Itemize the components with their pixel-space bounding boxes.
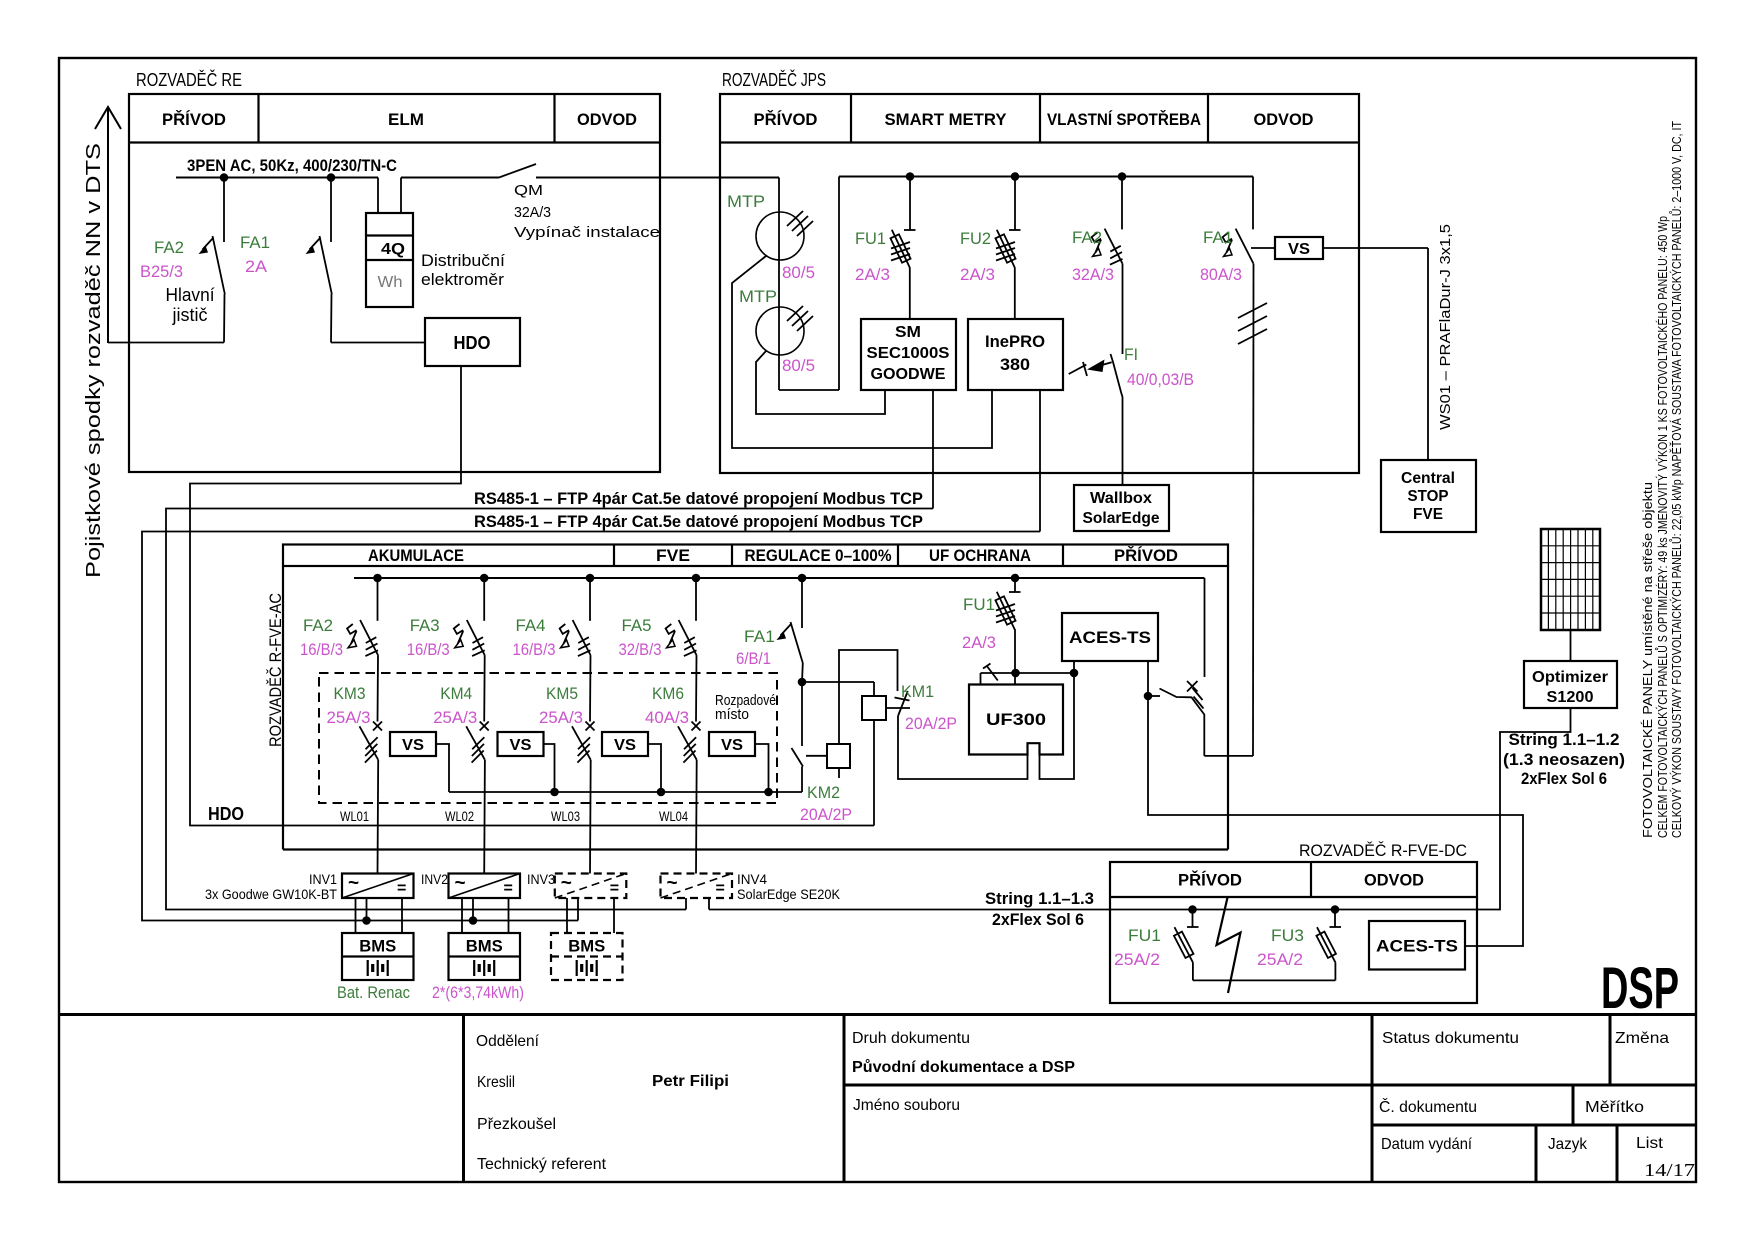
svg-text:FA2: FA2 <box>154 238 184 257</box>
svg-text:2*(6*3,74kWh): 2*(6*3,74kWh) <box>432 983 524 1002</box>
svg-text:FA1: FA1 <box>240 233 270 252</box>
battery system BMS1 <box>342 933 414 980</box>
box ACES-TS (AC) <box>1062 613 1158 661</box>
svg-text:String 1.1–1.3: String 1.1–1.3 <box>985 889 1094 908</box>
svg-text:6/B/1: 6/B/1 <box>736 649 771 668</box>
svg-text:FVE: FVE <box>656 546 690 565</box>
svg-text:S1200: S1200 <box>1547 689 1594 706</box>
wire SM RS485 drop <box>932 390 934 509</box>
coil KM2 <box>827 744 850 768</box>
CT transformer MTP 1 <box>756 212 804 260</box>
surge lightning symbol <box>1217 898 1241 994</box>
RCD FI <box>1111 354 1123 397</box>
svg-text:KM2: KM2 <box>807 783 840 802</box>
svg-text:PŘÍVOD: PŘÍVOD <box>162 110 226 129</box>
svg-text:ELM: ELM <box>388 110 424 129</box>
svg-text:40A/3: 40A/3 <box>645 708 689 727</box>
svg-text:InePRO: InePRO <box>985 332 1045 351</box>
wire VS1 drop <box>436 744 449 792</box>
svg-text:HDO: HDO <box>454 333 491 353</box>
svg-text:Měřítko: Měřítko <box>1585 1099 1644 1116</box>
node contact dot <box>1144 692 1153 701</box>
svg-text:Původní dokumentace a DSP: Původní dokumentace a DSP <box>852 1059 1075 1076</box>
svg-text:16/B/3: 16/B/3 <box>407 640 450 659</box>
svg-text:INV2: INV2 <box>421 871 448 887</box>
box VS2 <box>498 732 544 756</box>
svg-text:HDO: HDO <box>208 804 244 824</box>
wire RS485-1 line to SM <box>166 509 933 910</box>
svg-text:16/B/3: 16/B/3 <box>300 640 343 659</box>
svg-text:Jazyk: Jazyk <box>1548 1136 1588 1153</box>
svg-text:ROZVADĚČ JPS: ROZVADĚČ JPS <box>722 69 826 90</box>
svg-text:Optimizer: Optimizer <box>1532 669 1608 686</box>
fuse FU2 (JPS) <box>1014 177 1016 230</box>
svg-text:MTP: MTP <box>727 192 765 211</box>
svg-text:UF300: UF300 <box>986 710 1046 729</box>
breaker FA2 (R-FVE-AC) <box>377 578 379 621</box>
svg-text:KM4: KM4 <box>440 684 472 703</box>
svg-text:BMS: BMS <box>359 937 396 956</box>
svg-text:2A: 2A <box>245 257 268 276</box>
svg-text:=: = <box>610 880 619 897</box>
svg-text:SolarEdge: SolarEdge <box>1083 510 1160 527</box>
wire ACES link AC-DC <box>1148 696 1523 946</box>
svg-text:SEC1000S: SEC1000S <box>867 345 950 362</box>
wire InePRO RS485 drop <box>1039 390 1041 532</box>
svg-text:Technický referent: Technický referent <box>477 1156 607 1173</box>
svg-text:Bat. Renac: Bat. Renac <box>337 983 410 1002</box>
box InePRO 380 <box>968 319 1063 390</box>
svg-text:Jméno souboru: Jméno souboru <box>853 1097 960 1114</box>
wire INV3 to BMS3 <box>566 898 568 933</box>
box UF300 <box>969 685 1063 755</box>
arrow to DTS <box>107 108 109 343</box>
svg-text:Central: Central <box>1401 470 1455 487</box>
dashed box Rozpadove misto <box>319 673 777 803</box>
contactor KM3 <box>360 722 383 763</box>
switch QM blade <box>499 164 536 178</box>
wire bus RE <box>176 177 378 179</box>
breaker FA1 (RE) <box>330 178 332 243</box>
svg-text:VS: VS <box>614 737 636 754</box>
breaker FA4 (R-FVE-AC) <box>589 578 591 621</box>
svg-text:~: ~ <box>348 873 359 894</box>
svg-text:B25/3: B25/3 <box>140 262 183 281</box>
wire FA2 to DTS arrow <box>108 342 224 344</box>
svg-text:BMS: BMS <box>466 937 503 956</box>
svg-text:14/17: 14/17 <box>1644 1160 1695 1180</box>
svg-text:KM5: KM5 <box>546 684 578 703</box>
svg-text:(1.3 neosazen): (1.3 neosazen) <box>1503 750 1625 769</box>
svg-text:3PEN AC, 50Kz, 400/230/TN-C: 3PEN AC, 50Kz, 400/230/TN-C <box>187 156 397 175</box>
wire JPS bus through CTs <box>778 178 780 391</box>
contactor KM6 <box>678 722 701 763</box>
wire UF300 top link <box>981 672 1075 674</box>
svg-text:=: = <box>716 880 725 897</box>
svg-text:FA3: FA3 <box>410 616 440 635</box>
svg-text:25A/2: 25A/2 <box>1257 950 1303 969</box>
box HDO receiver <box>425 318 520 366</box>
wire VS4 drop <box>755 744 769 792</box>
wire FA1 to HDO <box>331 342 425 344</box>
CT transformer MTP 2 <box>756 307 804 355</box>
breaker FA1 (R-FVE-AC 6/B/1) <box>798 574 807 583</box>
svg-text:25A/2: 25A/2 <box>1114 950 1160 969</box>
svg-text:FU1: FU1 <box>855 229 886 248</box>
wire VS2 drop <box>544 744 555 792</box>
wire AC bus <box>354 577 1205 579</box>
switch privod (AC panel) <box>1204 578 1206 677</box>
svg-text:Wallbox: Wallbox <box>1090 490 1152 507</box>
wire INV2 to BMS2 <box>461 898 463 933</box>
wire MTP1 secondary to InePRO <box>732 256 992 448</box>
svg-text:FU3: FU3 <box>1271 926 1304 945</box>
svg-text:Status dokumentu: Status dokumentu <box>1382 1030 1519 1047</box>
node junction FU1 <box>906 172 915 181</box>
svg-text:2A/3: 2A/3 <box>855 265 890 284</box>
svg-text:PŘÍVOD: PŘÍVOD <box>1178 871 1242 890</box>
wire INV4 DC input <box>685 898 687 910</box>
box Central STOP FVE <box>1381 460 1476 532</box>
svg-text:místo: místo <box>715 706 749 723</box>
svg-text:Distribuční: Distribuční <box>421 251 505 270</box>
node junction FA2 (JPS) <box>1118 172 1127 181</box>
PV panel symbol <box>1541 529 1600 630</box>
wire optimizer string to R-FVE-DC <box>1477 708 1571 910</box>
inverter INV1 <box>342 874 414 899</box>
svg-text:2xFlex Sol 6: 2xFlex Sol 6 <box>1521 769 1607 788</box>
svg-text:FU1: FU1 <box>1128 926 1161 945</box>
node junction FA2 (AC) <box>373 574 382 583</box>
svg-text:3x Goodwe GW10K-BT: 3x Goodwe GW10K-BT <box>205 886 337 902</box>
svg-text:Kreslil: Kreslil <box>477 1074 515 1091</box>
fuse FU3 (DC) <box>1331 905 1340 914</box>
svg-text:Přezkoušel: Přezkoušel <box>477 1116 556 1133</box>
box Optimizer S1200 <box>1524 661 1617 708</box>
svg-text:20A/2P: 20A/2P <box>905 714 957 733</box>
svg-text:BMS: BMS <box>568 937 605 956</box>
svg-text:Oddělení: Oddělení <box>476 1033 540 1050</box>
inverter INV4 <box>661 874 733 899</box>
svg-text:~: ~ <box>561 873 572 894</box>
svg-text:32A/3: 32A/3 <box>514 204 551 221</box>
svg-text:WL01: WL01 <box>340 808 369 824</box>
svg-text:ODVOD: ODVOD <box>577 110 637 129</box>
svg-text:=: = <box>397 880 406 897</box>
svg-text:SolarEdge SE20K: SolarEdge SE20K <box>737 886 841 902</box>
svg-text:WL04: WL04 <box>659 808 688 824</box>
svg-text:Petr Filipi: Petr Filipi <box>652 1073 729 1090</box>
svg-text:FA1: FA1 <box>744 627 775 646</box>
node junction FA4 (AC) <box>586 574 595 583</box>
box Wallbox SolarEdge <box>1074 485 1169 531</box>
contact UF300 trip <box>987 666 998 681</box>
svg-text:VS: VS <box>510 737 532 754</box>
svg-text:VS: VS <box>402 737 424 754</box>
node junction below FA1 <box>801 663 804 682</box>
wire DC bus <box>1110 909 1477 911</box>
svg-text:elektroměr: elektroměr <box>421 270 504 289</box>
svg-text:FA4: FA4 <box>516 616 546 635</box>
wire DC fuse bottom link <box>1193 979 1336 981</box>
svg-text:QM: QM <box>514 182 543 199</box>
svg-text:RS485-1 – FTP 4pár Cat.5e dato: RS485-1 – FTP 4pár Cat.5e datové propoje… <box>474 489 923 508</box>
svg-text:32/B/3: 32/B/3 <box>619 640 662 659</box>
wire HDO control line <box>190 366 874 826</box>
svg-text:Pojistkové spodky rozvaděč NN: Pojistkové spodky rozvaděč NN v DTS <box>83 143 105 578</box>
svg-text:FI: FI <box>1124 345 1138 364</box>
svg-text:20A/2P: 20A/2P <box>800 805 852 824</box>
breaker FA2 (RE) <box>223 178 225 243</box>
node junction FA5 (AC) <box>692 574 701 583</box>
svg-text:FOTOVOLTAICKÉ PANELY umístěné: FOTOVOLTAICKÉ PANELY umístěné na střeše … <box>1640 482 1655 838</box>
node junction FA1 <box>327 173 336 182</box>
box VS4 <box>709 732 755 756</box>
svg-text:KM1: KM1 <box>901 682 934 701</box>
svg-text:PŘÍVOD: PŘÍVOD <box>1114 546 1178 565</box>
meter 4Q/Wh distribution meter <box>377 178 379 214</box>
svg-text:WL02: WL02 <box>445 808 474 824</box>
wire VS3 drop <box>648 744 661 792</box>
wire INV1 to BMS1 <box>355 898 357 933</box>
wire RS485-1 line to InePRO <box>142 532 1040 921</box>
svg-text:String 1.1–1.2: String 1.1–1.2 <box>1509 730 1620 749</box>
breaker FA3 (R-FVE-AC) <box>483 578 485 621</box>
svg-text:FU2: FU2 <box>960 229 991 248</box>
battery system BMS2 <box>449 933 521 980</box>
node junction FA3 (AC) <box>480 574 489 583</box>
fuse FU1 (JPS) <box>909 177 911 230</box>
svg-text:VLASTNÍ SPOTŘEBA: VLASTNÍ SPOTŘEBA <box>1047 110 1201 129</box>
svg-text:~: ~ <box>455 873 466 894</box>
svg-text:RS485-1 – FTP 4pár Cat.5e dato: RS485-1 – FTP 4pár Cat.5e datové propoje… <box>474 512 923 531</box>
breaker FA1 (JPS odvod) <box>1252 177 1254 230</box>
svg-text:GOODWE: GOODWE <box>871 366 946 383</box>
box ACES-TS (DC) <box>1369 921 1465 970</box>
svg-text:UF OCHRANA: UF OCHRANA <box>929 546 1031 565</box>
svg-text:25A/3: 25A/3 <box>433 708 477 727</box>
svg-text:Č. dokumentu: Č. dokumentu <box>1379 1097 1477 1116</box>
wire KM2 coil circuit <box>839 650 898 744</box>
svg-text:Druh dokumentu: Druh dokumentu <box>852 1030 970 1047</box>
svg-text:REGULACE 0–100%: REGULACE 0–100% <box>745 546 892 565</box>
svg-text:FA2: FA2 <box>1072 228 1102 247</box>
svg-text:ROZVADĚČ RE: ROZVADĚČ RE <box>136 69 242 90</box>
svg-text:32A/3: 32A/3 <box>1072 265 1114 284</box>
svg-text:Datum vydání: Datum vydání <box>1381 1136 1473 1153</box>
svg-text:FA1: FA1 <box>1203 228 1233 247</box>
wire VS to Central STOP <box>1323 247 1428 249</box>
coil KM1 <box>802 681 874 683</box>
svg-text:4Q: 4Q <box>381 241 405 258</box>
wire MTP2 secondary to SM <box>756 351 885 414</box>
svg-text:2A/3: 2A/3 <box>960 265 995 284</box>
svg-text:Hlavní: Hlavní <box>166 285 215 305</box>
svg-text:INV4: INV4 <box>737 871 767 887</box>
svg-text:Změna: Změna <box>1615 1030 1669 1047</box>
battery system BMS3 <box>551 933 623 980</box>
svg-text:KM6: KM6 <box>652 684 684 703</box>
wire FI to Wallbox <box>1122 397 1124 485</box>
svg-text:Vypínač instalace: Vypínač instalace <box>514 224 660 241</box>
box VS3 <box>602 732 648 756</box>
svg-text:16/B/3: 16/B/3 <box>513 640 556 659</box>
svg-text:25A/3: 25A/3 <box>539 708 583 727</box>
box SM SEC1000S GOODWE <box>861 319 956 390</box>
svg-text:ODVOD: ODVOD <box>1364 871 1424 890</box>
svg-text:WL03: WL03 <box>551 808 580 824</box>
svg-text:Wh: Wh <box>378 274 403 291</box>
svg-text:DSP: DSP <box>1601 956 1679 1021</box>
svg-text:VS: VS <box>721 737 743 754</box>
wire bus RE to JPS <box>536 177 779 179</box>
svg-text:SM: SM <box>895 324 921 341</box>
wire DC string to R-FVE-DC <box>709 909 1110 911</box>
svg-text:380: 380 <box>1000 355 1030 374</box>
svg-text:INV3: INV3 <box>527 871 555 887</box>
svg-text:25A/3: 25A/3 <box>327 708 371 727</box>
svg-text:=: = <box>504 880 513 897</box>
contactor KM5 <box>572 722 595 763</box>
svg-text:STOP: STOP <box>1408 488 1449 505</box>
svg-text:FA5: FA5 <box>622 616 652 635</box>
fuse FU1 (DC) <box>1188 905 1197 914</box>
contactor KM1 aux contact <box>898 691 908 716</box>
breaker FA5 (R-FVE-AC) <box>695 578 697 621</box>
svg-text:PŘÍVOD: PŘÍVOD <box>754 110 818 129</box>
svg-text:80/5: 80/5 <box>782 263 815 282</box>
svg-text:ODVOD: ODVOD <box>1254 110 1314 129</box>
wire KM1 to UF300 <box>898 716 1028 779</box>
svg-text:FA2: FA2 <box>303 616 333 635</box>
svg-text:ACES-TS: ACES-TS <box>1069 628 1151 647</box>
node junction FA2 <box>220 173 229 182</box>
wire PV to optimizer <box>1570 630 1572 661</box>
svg-text:~: ~ <box>667 873 678 894</box>
svg-text:FU1: FU1 <box>963 595 995 614</box>
svg-text:SMART METRY: SMART METRY <box>885 110 1008 129</box>
svg-text:VS: VS <box>1288 241 1310 258</box>
svg-text:CELKOVÝ VÝKON SOUSTAVY FOTOVOL: CELKOVÝ VÝKON SOUSTAVY FOTOVOLTAICKÝCH P… <box>1669 121 1684 838</box>
svg-text:FVE: FVE <box>1413 506 1443 523</box>
contactor KM4 <box>466 722 489 763</box>
box VS1 <box>390 732 436 756</box>
fuse FU1 (UF ochrana) <box>1011 574 1020 583</box>
svg-text:CELKEM FOTOVOLTAICKÝCH PANELŮ: CELKEM FOTOVOLTAICKÝCH PANELŮ S OPTIMIZÉ… <box>1655 216 1670 838</box>
contactor KM2 contact <box>801 682 803 746</box>
svg-text:80A/3: 80A/3 <box>1200 265 1242 284</box>
svg-text:List: List <box>1636 1135 1664 1152</box>
svg-text:WS01 – PRAFlaDur-J 3x1,5: WS01 – PRAFlaDur-J 3x1,5 <box>1437 224 1454 430</box>
svg-text:80/5: 80/5 <box>782 356 815 375</box>
svg-text:AKUMULACE: AKUMULACE <box>368 546 464 565</box>
svg-text:jistič: jistič <box>172 305 208 325</box>
svg-text:INV1: INV1 <box>309 871 337 887</box>
svg-text:ACES-TS: ACES-TS <box>1376 937 1458 956</box>
breaker FA2 (JPS spotreba) <box>1121 177 1123 230</box>
svg-text:40/0,03/B: 40/0,03/B <box>1127 370 1194 389</box>
svg-text:MTP: MTP <box>739 287 777 306</box>
svg-text:ROZVADĚČ R-FVE-DC: ROZVADĚČ R-FVE-DC <box>1299 841 1467 860</box>
title block <box>59 1013 1696 1016</box>
box VS (JPS) <box>1251 247 1275 249</box>
node junction FU2 <box>1011 172 1020 181</box>
inverter INV3 <box>555 874 627 899</box>
wire VS common to KM2 <box>449 791 802 793</box>
inverter INV2 <box>449 874 521 899</box>
svg-text:2A/3: 2A/3 <box>962 633 996 652</box>
svg-text:KM3: KM3 <box>334 684 366 703</box>
svg-text:2xFlex Sol 6: 2xFlex Sol 6 <box>992 910 1084 929</box>
